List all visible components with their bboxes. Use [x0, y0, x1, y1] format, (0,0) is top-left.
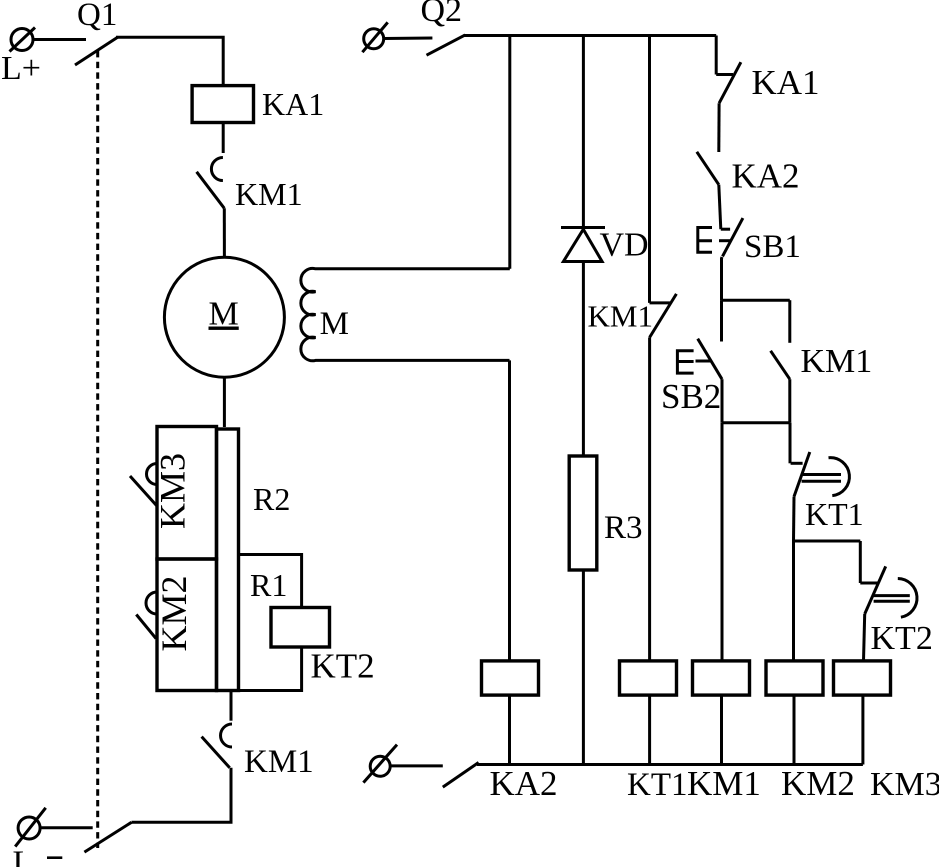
diode VD [561, 228, 605, 262]
switch Q1 upper blade [75, 37, 118, 65]
wire [132, 768, 232, 823]
contactor coil KM2 [766, 661, 823, 695]
switch Q2 lower blade [443, 763, 479, 788]
svg-text:KM1: KM1 [244, 744, 314, 780]
contactor contact KM1 (right, NO self-hold) [771, 300, 790, 423]
wire [390, 764, 443, 767]
timer coil KT1 [620, 661, 677, 695]
svg-text:L: L [13, 845, 34, 867]
relay contact KA2 (NO) [697, 152, 719, 185]
svg-text:M: M [320, 306, 349, 342]
svg-text:Q2: Q2 [421, 0, 463, 29]
wire [792, 497, 796, 541]
contactor contact KM1 (left, NO) [197, 158, 225, 209]
svg-text:KT2: KT2 [871, 620, 933, 657]
switch Q2 blade [427, 35, 466, 55]
resistor network: KM3 bypass box [157, 427, 217, 560]
wire [793, 695, 796, 764]
wire [794, 540, 861, 543]
svg-text:KA2: KA2 [490, 764, 558, 803]
wire [722, 299, 790, 302]
wire [792, 541, 795, 661]
terminal Q2 return [363, 745, 397, 783]
svg-text:KT1: KT1 [627, 767, 688, 803]
svg-text:R2: R2 [253, 481, 290, 517]
wire [721, 379, 724, 423]
svg-text:SB1: SB1 [744, 229, 801, 265]
svg-text:KM1: KM1 [588, 299, 653, 334]
resistor R1 loop [239, 555, 302, 691]
svg-text:KA2: KA2 [732, 157, 800, 196]
resistor network: KM2 bypass box [157, 559, 217, 691]
timer contact KT2 (delayed NO) [860, 566, 917, 617]
resistor R3 [569, 456, 597, 570]
wire [223, 208, 226, 257]
timer coil KT2 [271, 608, 330, 648]
svg-text:R1: R1 [250, 567, 287, 603]
svg-text:KM2: KM2 [154, 575, 194, 651]
wire [789, 423, 792, 464]
svg-text:KT2: KT2 [311, 647, 375, 686]
wire [222, 123, 225, 154]
wire [721, 423, 724, 661]
bottom bus wire [477, 763, 863, 766]
contactor contact KM2 [136, 592, 157, 639]
wire [648, 695, 651, 764]
wire [384, 37, 433, 41]
relay coil KA1 [192, 86, 253, 123]
terminal L+ [10, 28, 36, 52]
pushbutton SB1 (NC) [698, 218, 743, 256]
wire [508, 695, 511, 764]
svg-text:KA1: KA1 [262, 86, 324, 122]
svg-text:Q1: Q1 [77, 0, 117, 33]
wire [719, 185, 721, 230]
wire [40, 826, 93, 829]
contactor contact KM1 (NC, middle) [650, 294, 677, 338]
svg-text:VD: VD [600, 227, 649, 264]
svg-text:KM1: KM1 [687, 764, 761, 803]
svg-text:R3: R3 [604, 510, 643, 546]
contactor contact KM1 (bottom left, NO) [202, 724, 232, 768]
contactor coil KM3 [834, 661, 891, 695]
wire [230, 691, 233, 721]
svg-text:KT1: KT1 [805, 496, 864, 532]
terminal Q2 input [362, 22, 387, 52]
wire [722, 421, 790, 424]
wire [861, 695, 864, 764]
svg-text:KM3: KM3 [870, 766, 939, 803]
terminal L- [15, 808, 46, 847]
field winding M [301, 268, 510, 360]
svg-text:M: M [209, 296, 239, 333]
wire [864, 614, 865, 661]
wire [717, 103, 720, 152]
relay contact KA1 (NC) [716, 62, 741, 103]
wire [582, 262, 585, 457]
wire [582, 570, 585, 765]
svg-text:KM2: KM2 [781, 764, 855, 803]
svg-text:SB2: SB2 [661, 377, 721, 416]
wire [33, 38, 86, 41]
wire [859, 541, 862, 583]
svg-text:KA1: KA1 [752, 63, 820, 102]
resistor R2 [217, 429, 239, 691]
wire [508, 360, 511, 661]
wire [223, 377, 226, 427]
svg-text:KM1: KM1 [235, 176, 303, 212]
relay coil KA2 [482, 661, 539, 695]
svg-text:KM1: KM1 [801, 343, 873, 380]
wire [715, 36, 718, 75]
wire [720, 257, 724, 300]
pushbutton SB2 (NO) [677, 339, 722, 380]
wire [582, 36, 585, 228]
contactor contact KM3 [130, 464, 157, 506]
timer contact KT1 (delayed NO) [791, 452, 850, 497]
wire [648, 36, 651, 303]
svg-text:L+: L+ [1, 50, 41, 87]
minus sign of L- [47, 856, 62, 859]
mechanical link (dashed) of Q1 [96, 51, 99, 848]
svg-text:KM3: KM3 [153, 453, 193, 529]
wire [116, 37, 223, 85]
top bus wire [464, 34, 717, 37]
wire [508, 36, 511, 269]
contactor coil KM1 [693, 661, 750, 695]
wire [720, 300, 723, 341]
wire [648, 337, 651, 661]
switch Q1 lower blade [84, 822, 131, 852]
wire [720, 695, 723, 764]
motor M armature [164, 257, 284, 377]
